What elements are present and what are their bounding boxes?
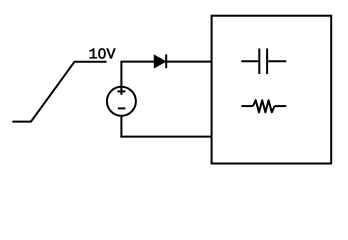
value label 10V [90,48,116,58]
resistor R1 [241,100,286,112]
ramp input waveform annotation [12,62,106,122]
plus polarity mark [117,90,125,92]
wire: source top node to diode anode [120,61,154,63]
capacitor C1 [241,49,286,75]
minus polarity mark [118,107,126,109]
diode D1 [154,54,166,68]
wire: source bottom lead [120,116,122,138]
wire: top node down into source (plus lead) [120,62,122,95]
wire: bottom return to box [120,136,211,138]
voltage source V1 [107,87,136,116]
wire: diode cathode to box [166,61,211,63]
load box enclosure [212,16,332,164]
